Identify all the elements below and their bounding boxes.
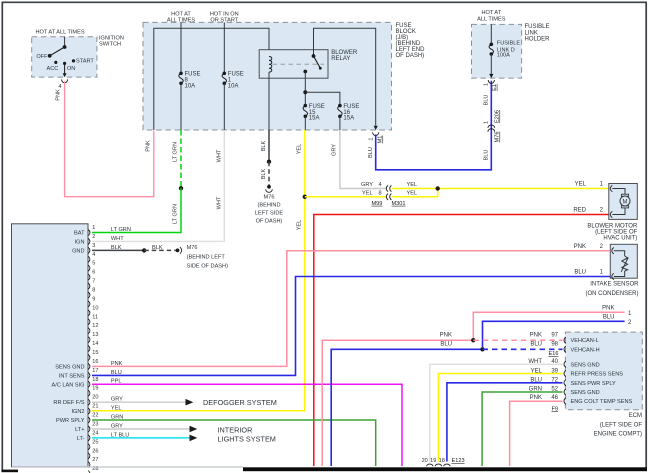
svg-text:IGN2: IGN2 [71, 409, 84, 415]
svg-text:21: 21 [92, 404, 98, 410]
wire PNK eng colt temp sens 46 [510, 401, 563, 466]
svg-text:GRN: GRN [529, 386, 542, 392]
svg-text:4: 4 [58, 84, 61, 90]
svg-text:RR DEF F/S: RR DEF F/S [53, 400, 84, 406]
pin 21 stub [88, 408, 90, 414]
svg-text:52: 52 [551, 386, 558, 392]
svg-text:BLK: BLK [261, 140, 267, 151]
relay switch contact [312, 54, 316, 58]
bus right segment [314, 28, 376, 125]
svg-text:WHT: WHT [216, 196, 222, 209]
pin 1 label (E1) [484, 83, 490, 86]
fuse 8 [179, 72, 183, 76]
pin 28 stub [88, 471, 90, 473]
inline connector E206/M76 on BLU [488, 125, 495, 132]
pin 1 label (M1) [368, 137, 374, 140]
svg-text:E123: E123 [452, 458, 465, 464]
svg-text:BLU: BLU [530, 378, 542, 384]
wire GRN sens gnd 52 [482, 392, 562, 466]
wire GRY pin23 to interior lights [92, 428, 190, 430]
svg-text:M: M [623, 199, 628, 205]
pin 9 stub [88, 301, 90, 307]
svg-text:M76: M76 [264, 194, 275, 200]
svg-text:PNK: PNK [56, 89, 62, 101]
svg-text:FUSE: FUSE [228, 72, 244, 78]
svg-text:IGN: IGN [75, 239, 85, 245]
splice node BLK pin3 [142, 248, 146, 252]
svg-text:1: 1 [484, 83, 490, 86]
ECM pin 39 stub [564, 370, 566, 376]
fuse 15 [304, 104, 308, 108]
connector M1 label [378, 136, 384, 144]
svg-text:7: 7 [92, 279, 95, 285]
pin 2 stub [88, 238, 90, 244]
svg-text:15A: 15A [309, 116, 320, 122]
pin 10 stub [88, 310, 90, 316]
wire PPL pin18 [92, 384, 402, 466]
svg-text:39: 39 [551, 369, 558, 375]
SECTION: blower + intake [473, 184, 639, 348]
svg-text:PNK: PNK [440, 333, 452, 339]
svg-text:15A: 15A [343, 116, 354, 122]
BLU label (M1 column) [368, 147, 374, 158]
terminal ON [63, 62, 66, 65]
svg-text:HOT AT ALL TIMES: HOT AT ALL TIMES [35, 29, 84, 35]
svg-text:VEHCAN-L: VEHCAN-L [571, 338, 599, 344]
svg-text:HVAC UNIT): HVAC UNIT) [603, 236, 637, 242]
SECTION: ignition switch [32, 29, 154, 196]
svg-text:40: 40 [551, 359, 558, 365]
svg-text:3: 3 [92, 243, 95, 249]
svg-text:BLU: BLU [603, 315, 615, 321]
pin 1 stub [88, 230, 90, 236]
blower motor box [609, 184, 638, 220]
ECM pin 52 stub [564, 389, 566, 395]
wire GRN pin22 [92, 420, 376, 466]
svg-text:BAT: BAT [74, 231, 85, 237]
svg-text:YEL: YEL [575, 182, 587, 188]
svg-text:M99: M99 [372, 201, 383, 207]
pin 14 stub [88, 346, 90, 352]
pin 13 stub [88, 337, 90, 343]
pin 4 stub [88, 256, 90, 262]
svg-text:PNK: PNK [530, 333, 542, 339]
svg-text:ACC: ACC [47, 66, 59, 72]
svg-text:46: 46 [551, 395, 558, 401]
wire BLU sens pwr sply 72 [447, 383, 563, 462]
LT GRN label upper [173, 142, 179, 162]
ground connector M76 pin3 [176, 249, 180, 253]
svg-text:SENS GND: SENS GND [571, 390, 600, 396]
junction feed fuse 16 [303, 90, 307, 94]
terminal START [72, 59, 75, 62]
wire GRY from fuse 16 [340, 130, 386, 189]
svg-text:PNK: PNK [574, 244, 586, 250]
svg-text:VEHCAN-H: VEHCAN-H [571, 347, 600, 353]
wire BLK solid from fuse block [268, 130, 270, 162]
intake sensor box [610, 244, 637, 278]
svg-text:GRY: GRY [332, 144, 338, 156]
intake sensor pin 1 stub [612, 273, 614, 279]
svg-text:8: 8 [379, 191, 382, 197]
svg-text:98: 98 [551, 342, 558, 348]
ignition switch output wire to pin 4 [64, 63, 66, 74]
SECTION: ac amp [12, 224, 611, 473]
fuse 1 feed wire [223, 22, 225, 73]
wire BLU VEHCAN-H dashed [483, 348, 563, 350]
svg-text:LIGHTS SYSTEM: LIGHTS SYSTEM [218, 434, 276, 443]
svg-text:22: 22 [92, 413, 98, 419]
pin 24 stub [88, 435, 90, 441]
svg-text:PNK: PNK [602, 306, 614, 312]
wire PNK VEHCAN-L solid [322, 340, 473, 466]
pin 19 stub [88, 390, 90, 396]
svg-text:RED: RED [573, 208, 586, 214]
pin 15 stub [88, 355, 90, 361]
svg-text:E16: E16 [549, 351, 559, 357]
svg-text:FUSE: FUSE [185, 72, 201, 78]
arrow interior [190, 426, 198, 433]
wire PNK pin16 to intake sensor [92, 251, 610, 367]
BLU label upper (fusible link column) [484, 95, 490, 106]
E1 output arrow [489, 74, 493, 78]
svg-text:BLU: BLU [484, 150, 490, 161]
wire relay output to fuses [304, 72, 306, 106]
svg-text:RELAY: RELAY [331, 56, 350, 62]
svg-text:WHT: WHT [216, 149, 222, 162]
wire BLK dashed to M76 [268, 162, 270, 185]
svg-text:WHT: WHT [528, 359, 542, 365]
svg-text:GRY: GRY [361, 182, 373, 188]
svg-text:5: 5 [92, 261, 95, 267]
BLK label upper [261, 140, 267, 151]
ECM pin 98 stub [564, 346, 566, 352]
pin 8 stub [88, 292, 90, 298]
svg-text:14: 14 [92, 341, 98, 347]
svg-text:BLU: BLU [368, 147, 374, 158]
svg-text:SWITCH: SWITCH [99, 42, 121, 48]
svg-text:BLK: BLK [152, 245, 163, 251]
svg-text:YEL: YEL [407, 182, 418, 188]
bus left segment [154, 28, 269, 130]
svg-text:ECM: ECM [629, 413, 642, 419]
svg-text:FUSIBLE: FUSIBLE [497, 40, 521, 46]
svg-text:INTERIOR: INTERIOR [218, 425, 253, 434]
svg-text:GND: GND [72, 248, 84, 254]
arrow defogger [186, 399, 194, 406]
motor M internal wiring [612, 189, 625, 195]
svg-text:6: 6 [92, 270, 95, 276]
svg-text:BLK: BLK [261, 168, 267, 179]
ECM pin 46 stub [564, 398, 566, 405]
svg-text:OF DASH): OF DASH) [256, 218, 283, 224]
SECTION: fusible link [472, 10, 551, 160]
pin 27 stub [88, 462, 90, 468]
fuse block J/B box [143, 22, 392, 130]
svg-text:4: 4 [92, 252, 95, 258]
svg-text:10A: 10A [228, 83, 239, 89]
svg-text:E1: E1 [492, 84, 498, 91]
svg-text:10A: 10A [185, 83, 196, 89]
junction node VEHCAN-L [471, 338, 475, 342]
junction node VEHCAN-H [480, 347, 484, 351]
svg-text:2: 2 [92, 234, 95, 240]
E123 stub pin 18 [444, 464, 450, 470]
blower motor pin 2 stub [610, 211, 612, 217]
wire BLU from M1 to fusible link [376, 81, 492, 170]
svg-text:11: 11 [92, 314, 98, 320]
wire BLU to remote pin 2 [483, 321, 625, 347]
svg-text:M301: M301 [392, 201, 406, 207]
wire GRY pin20 to defogger [92, 401, 186, 403]
svg-text:PNK: PNK [530, 395, 542, 401]
pin 23 stub [88, 426, 90, 432]
terminal ACC [54, 61, 57, 64]
pin 5 stub [88, 265, 90, 271]
svg-text:M1: M1 [378, 136, 384, 144]
svg-text:ALL TIMES: ALL TIMES [477, 16, 506, 22]
ECM pin 97 stub [564, 337, 566, 343]
WHT label lower [216, 196, 222, 209]
svg-text:M76: M76 [187, 245, 198, 251]
svg-text:YEL: YEL [297, 144, 303, 155]
svg-text:HOLDER: HOLDER [525, 37, 551, 43]
WHT label upper [216, 149, 222, 162]
svg-text:17: 17 [92, 368, 98, 374]
BLU label lower (fusible link column) [484, 150, 490, 161]
svg-text:27: 27 [92, 457, 98, 463]
wire PNK from ignition switch [65, 81, 154, 197]
svg-text:19: 19 [92, 386, 98, 392]
svg-text:1: 1 [92, 225, 95, 231]
svg-text:97: 97 [551, 333, 558, 339]
wire below fuse 8 [180, 83, 182, 130]
svg-text:HOT AT: HOT AT [481, 10, 501, 16]
connector E206 label [495, 110, 501, 123]
splice node on BLK [267, 160, 271, 164]
svg-text:SENS PWR SPLY: SENS PWR SPLY [571, 381, 617, 387]
fusible link holder box [472, 24, 522, 78]
wire YEL from fuse 15 [92, 130, 305, 411]
ECM pin 40 stub [564, 361, 566, 367]
wire PNK VEHCAN-L dashed [473, 339, 562, 341]
svg-text:13: 13 [92, 332, 98, 338]
svg-text:LT GRN: LT GRN [173, 142, 179, 162]
svg-text:INTAKE SENSOR: INTAKE SENSOR [590, 282, 639, 288]
fuse 8 feed wire [180, 22, 182, 73]
ignition switch wiper [63, 45, 67, 49]
pin 26 stub [88, 453, 90, 459]
svg-text:SENS GND: SENS GND [571, 362, 600, 368]
wire YEL refr press sens 39 [438, 374, 562, 462]
relay coil [269, 57, 272, 73]
M1 output arrow [374, 126, 378, 130]
svg-text:LT+: LT+ [75, 427, 84, 433]
pin 11 stub [88, 319, 90, 325]
motor symbol [621, 194, 628, 196]
svg-text:LINK: LINK [525, 30, 538, 36]
svg-text:ENG COLT TEMP SENS: ENG COLT TEMP SENS [571, 399, 633, 405]
PNK label (ignition) [56, 89, 62, 101]
wire LT BLU pin24 to lights [92, 437, 190, 439]
svg-text:OF DASH): OF DASH) [396, 53, 425, 59]
ECM box [565, 332, 642, 410]
relay actuation dashed line [273, 63, 325, 65]
svg-text:(BEHIND LEFT: (BEHIND LEFT [187, 254, 226, 260]
svg-text:M76: M76 [495, 132, 501, 143]
pin 18 stub [88, 381, 90, 387]
wire YEL branch to M301 pin 8 [305, 196, 386, 198]
wire WHT to pin 2 [92, 130, 224, 241]
svg-text:BLU: BLU [530, 342, 542, 348]
GRY label [332, 144, 338, 156]
svg-text:START: START [76, 58, 94, 64]
wire BLU pin17 to intake sensor [92, 277, 610, 376]
svg-text:24: 24 [92, 430, 98, 436]
YEL label lower [297, 220, 303, 231]
svg-text:ON: ON [67, 66, 75, 72]
wire RED from blower motor [314, 215, 609, 467]
fusible link D feed wire [490, 24, 492, 44]
wire BLK dashed pin3 [144, 249, 175, 251]
svg-text:12: 12 [92, 323, 98, 329]
svg-text:(LEFT SIDE OF: (LEFT SIDE OF [600, 422, 643, 428]
YEL label upper [297, 144, 303, 155]
svg-text:18: 18 [439, 458, 445, 464]
junction node YEL [303, 195, 307, 199]
svg-text:26: 26 [92, 448, 98, 454]
pin 17 stub [88, 372, 90, 378]
E123 stub pin 19 [435, 464, 441, 470]
thermistor internal wiring [614, 251, 625, 256]
svg-text:23: 23 [92, 422, 98, 428]
svg-text:YEL: YEL [297, 220, 303, 231]
wire YEL M301 to blower motor [391, 188, 608, 190]
PNK label (fuse block feed) [146, 140, 152, 152]
svg-text:16: 16 [92, 359, 98, 365]
SECTION: fuse block [143, 12, 425, 144]
svg-text:F9: F9 [551, 406, 558, 412]
svg-text:100A: 100A [497, 52, 510, 58]
svg-text:INT SENS: INT SENS [59, 373, 85, 379]
SECTION: ecm [322, 332, 642, 470]
wire below fuse 1 [223, 83, 225, 130]
svg-text:10: 10 [92, 305, 98, 311]
pin 12 stub [88, 328, 90, 334]
svg-text:1: 1 [368, 137, 374, 140]
svg-text:YEL: YEL [362, 191, 373, 197]
svg-text:PNK: PNK [146, 140, 152, 152]
svg-text:18: 18 [92, 377, 98, 383]
terminal OFF [48, 54, 52, 58]
pin 20 stub [88, 399, 90, 405]
BLK label lower [261, 168, 267, 179]
connector cup below ignition [62, 79, 68, 82]
wire WHT sens gnd 40 [430, 364, 563, 461]
svg-text:LT-: LT- [77, 436, 85, 442]
wire LT GRN solid to pin 1 [92, 188, 181, 232]
svg-text:WHT: WHT [111, 236, 124, 242]
splice node on LT GRN [179, 186, 183, 190]
svg-text:DEFOGGER SYSTEM: DEFOGGER SYSTEM [203, 398, 277, 407]
wire below fusible link [490, 54, 492, 74]
svg-text:LT GRN: LT GRN [173, 204, 179, 224]
wire BLU VEHCAN-H solid [331, 349, 482, 466]
svg-text:REFR PRESS SENS: REFR PRESS SENS [571, 372, 624, 378]
svg-text:SENS GND: SENS GND [55, 364, 84, 370]
svg-text:LT GRN: LT GRN [111, 227, 131, 233]
svg-text:A/C LAN SIG: A/C LAN SIG [52, 382, 85, 388]
svg-text:9: 9 [92, 296, 95, 302]
pin 25 stub [88, 444, 90, 450]
svg-text:BLU: BLU [574, 270, 586, 276]
svg-text:PWR SPLY: PWR SPLY [56, 418, 85, 424]
connector M76 label (BLU column) [495, 132, 501, 143]
blower relay box [259, 50, 328, 78]
wire YEL row2 joining row1 [391, 189, 437, 197]
ignition switch SW1 box [32, 37, 97, 77]
svg-text:YEL: YEL [531, 369, 543, 375]
svg-text:ENGINE COMPT): ENGINE COMPT) [594, 432, 642, 438]
svg-text:8: 8 [92, 288, 95, 294]
arrow lights [190, 435, 198, 442]
svg-text:OFF: OFF [36, 54, 48, 60]
svg-text:BLU: BLU [484, 95, 490, 106]
ECM pin 72 stub [564, 380, 566, 386]
svg-text:72: 72 [551, 378, 558, 384]
svg-text:4: 4 [379, 182, 382, 188]
svg-text:25: 25 [92, 439, 98, 445]
junction node YEL merge [436, 186, 440, 190]
svg-text:15: 15 [92, 350, 98, 356]
E123 stub pin 20 [427, 464, 433, 470]
wire BLK pin3 to M76 [92, 249, 144, 251]
svg-text:E206: E206 [495, 110, 501, 123]
svg-text:LEFT SIDE: LEFT SIDE [255, 210, 283, 216]
svg-text:19: 19 [430, 458, 436, 464]
pin 16 stub [88, 363, 90, 369]
pin 22 stub [88, 417, 90, 423]
connector M99/M301 row 2 [386, 194, 391, 200]
svg-text:BLU: BLU [440, 342, 452, 348]
SECTION: fuse block outputs [92, 81, 609, 466]
pin 7 stub [88, 283, 90, 289]
svg-text:FUSIBLE: FUSIBLE [525, 24, 550, 30]
thermistor symbol [622, 256, 628, 271]
pin 6 stub [88, 274, 90, 280]
wire PNK to remote pin 1 [473, 312, 624, 338]
relay switch arm [314, 56, 321, 68]
pin 1 label (E206) [483, 121, 489, 124]
connector M99/M301 row 1 [386, 185, 391, 191]
svg-text:1: 1 [483, 121, 489, 124]
pin 3 stub [88, 247, 90, 253]
fusible link D [490, 43, 494, 47]
relay switch output terminal [303, 70, 307, 74]
svg-text:(BEHIND: (BEHIND [258, 202, 281, 208]
blower motor pin 1 stub [610, 185, 612, 191]
svg-text:20: 20 [92, 395, 98, 401]
wire LT GRN dashed from fuse block [180, 130, 182, 188]
svg-text:SIDE OF DASH): SIDE OF DASH) [187, 264, 228, 270]
A/C amplifier connector box [12, 224, 89, 467]
connector E1 label [492, 84, 498, 91]
ignition switch feed wire [64, 37, 66, 47]
intake sensor pin 2 stub [612, 248, 614, 254]
ground connector M76 (BLK column) [267, 185, 271, 189]
LT GRN label lower [173, 204, 179, 224]
fuse 16 [338, 104, 342, 108]
